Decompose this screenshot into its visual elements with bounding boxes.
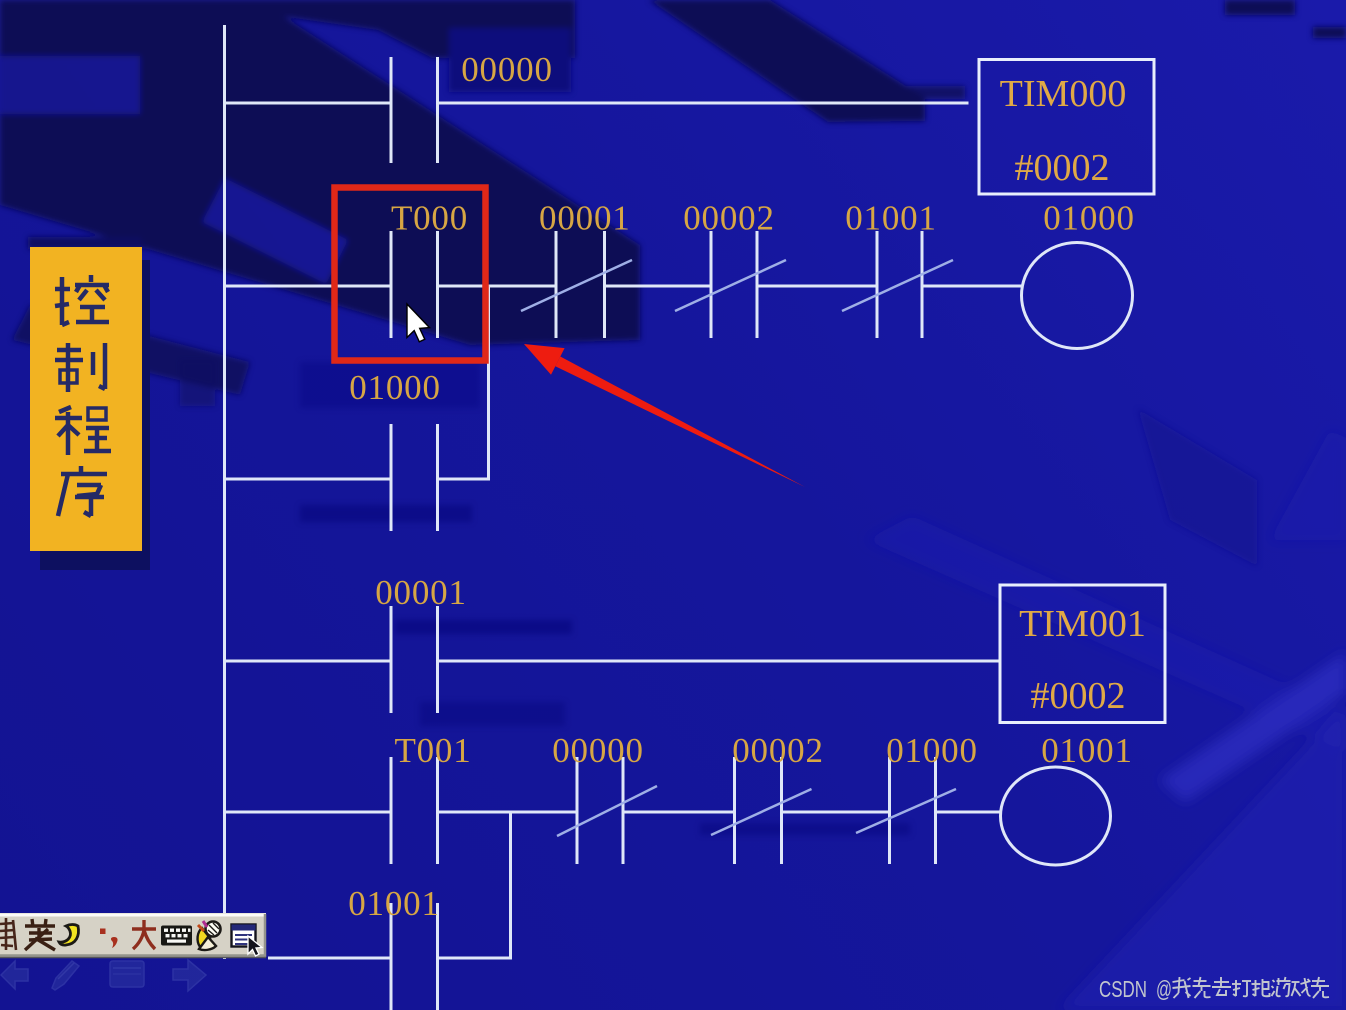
svg-text:00000: 00000 [552,731,644,770]
wire rung4 segment rail to T001 [223,811,391,814]
svg-text:TIM001: TIM001 [1019,603,1146,645]
wire branch2 riser [509,812,512,960]
svg-text:01001: 01001 [348,884,440,923]
svg-text:01000: 01000 [349,368,441,407]
wire branch1 bottom left segment [223,478,391,481]
wire branch1 riser [487,286,490,481]
IME moon icon [59,925,79,946]
svg-text:01001: 01001 [845,199,937,238]
svg-text:00000: 00000 [461,50,553,89]
left power rail [223,25,226,959]
wire rung4 segment 01000 to coil [936,811,1001,814]
wire branch2 bottom left segment [268,957,391,960]
contact 01001 rung2 NC [842,231,953,338]
contact 01000 branch1 [391,424,438,531]
contact 00000 rung4 NC [557,757,657,864]
TITLEBOX [30,247,150,570]
ghost pen icon [52,961,79,990]
svg-text:01001: 01001 [1041,731,1133,770]
wire rung1 left segment [223,102,391,105]
svg-text:01000: 01000 [1043,199,1135,238]
red annotation arrow [555,357,805,488]
coil 01000 rung2 [1022,243,1133,349]
coil 01001 rung4 [1001,767,1111,865]
wire rung2 segment 00002 to 01001 [757,285,877,288]
contact 00002 rung2 NC [675,231,786,338]
wire rung4 segment T001 to 00000 [438,811,578,814]
ghost nav arrow left [1,961,28,989]
LADDER [223,25,1165,1010]
ghost nav arrow right [173,960,206,991]
wire rung2 segment 01001 to coil [922,285,1022,288]
wire branch1 bottom right segment [438,478,491,481]
watermark hanzi da 打 [1232,980,1251,996]
timer box TIM000 [979,60,1154,195]
hanzi cheng2 程 [55,407,111,455]
svg-text:00001: 00001 [539,199,631,238]
wire rung2 segment 00001 to 00002 [605,285,712,288]
IME partial left glyph [0,918,16,950]
contact 01001 branch2 [391,903,438,1010]
svg-text:00001: 00001 [375,573,467,612]
hanzi xu4 序 [58,466,107,516]
hanzi kong4 控 [55,275,109,325]
wire rung2 segment rail to T000 [223,285,391,288]
svg-text:@: @ [1156,976,1172,1002]
IME language bar body [0,913,266,957]
contact 00002 rung4 NC [711,757,812,864]
WATERMARK [1099,976,1329,1002]
timer box TIM001 [1000,585,1165,723]
watermark hanzi xian2 先 [1311,977,1329,998]
svg-text:00002: 00002 [732,731,824,770]
svg-text:#0002: #0002 [1031,675,1126,717]
wire rung3 right segment to TIM001 [438,660,1000,663]
watermark hanzi xian 先 [1193,977,1211,998]
svg-text:T000: T000 [391,199,468,238]
watermark hanzi you 游 [1272,977,1291,996]
svg-text:TIM000: TIM000 [1000,73,1127,115]
contact 00001 rung2 NC [521,231,632,338]
watermark hanzi xi 戏 [1292,978,1311,996]
ghost page icon [110,961,144,987]
watermark hanzi wo 我 [1173,977,1191,998]
title box shadow [40,260,150,570]
IMEBAR [0,913,266,991]
ANNOT [335,188,806,488]
contact T001 [391,757,438,864]
IME pinyin tool icon [198,921,221,950]
svg-text:T001: T001 [394,731,471,770]
svg-text:#0002: #0002 [1015,147,1110,189]
wire rung2 segment T000 to 00001 [438,285,557,288]
BG_LIGHT [866,430,1346,1010]
contact T000 [391,231,438,338]
IME notepad icon [232,925,263,957]
contact 00000 rung1 [391,57,438,163]
svg-text:00002: 00002 [683,199,775,238]
mouse cursor [407,304,430,342]
IME keyboard icon [161,926,192,946]
wire rung4 segment 00000 to 00002 [623,811,735,814]
watermark hanzi ba 把 [1252,979,1270,996]
IME hanzi da 大 red [132,920,156,949]
watermark hanzi qu 去 [1212,977,1231,995]
contact 01000 rung4 NC [856,757,956,864]
wire rung1 right segment to TIM000 [438,102,969,105]
red highlight box around T000 [335,188,486,361]
hanzi zhi4 制 [55,343,105,392]
IME hanzi ying 英 dark [25,919,55,950]
svg-text:01000: 01000 [886,731,978,770]
wire rung4 segment 00002 to 01000 [782,811,890,814]
title box [30,247,142,551]
contact 00001 rung3 [391,606,438,713]
wire branch2 bottom right segment [438,957,513,960]
wire rung3 left segment [223,660,391,663]
IME punctuation icon [100,929,106,935]
svg-text:CSDN: CSDN [1099,976,1147,1002]
